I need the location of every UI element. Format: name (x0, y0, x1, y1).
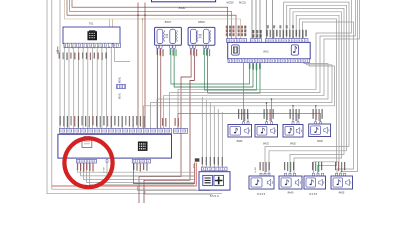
tweeter 8402 pin row (315, 122, 317, 125)
wire ECU drop B to head unit (144, 3, 146, 129)
wire margin drop to head unit pin 1 (59, 0, 61, 129)
wire head unit group A to 8503 area (5 lines) (78, 163, 195, 173)
amplifier 8410 top pin strips (227, 39, 247, 43)
amplifier 8410 labels above top pins (226, 26, 228, 29)
speaker labels above 8435 (312, 162, 313, 170)
speaker 8506 box (188, 27, 215, 45)
head unit box 8400 (58, 134, 172, 158)
tweeter labels above 8420 (290, 109, 291, 119)
wire amp bottom pin g5 to head unit (151, 62, 333, 128)
wire dark rail y113.5 with drops to tweeters (178, 114, 321, 129)
wire stubs into T01 top (110, 19, 113, 27)
8506 magnet dashes (199, 35, 202, 38)
T01 pin number row (65, 46, 66, 48)
T01 connector icon (88, 32, 97, 41)
head unit pin 10 (106, 160, 108, 163)
svg-text:MC41: MC41 (120, 76, 122, 83)
svg-text:MC51: MC51 (239, 0, 246, 4)
speaker 8440 box (279, 176, 302, 189)
8503 cross icon (214, 175, 224, 185)
wire junction drop to tweeter 8402 (315, 106, 317, 122)
wire amp bottom pin g6 to head unit (144, 62, 335, 128)
wire drop to tweeter 8420 pin (292, 106, 294, 122)
wire top edge jog g3 to head unit (164, 0, 360, 129)
8410 green wire labels (249, 63, 251, 69)
8503 lines icon (203, 175, 213, 185)
8503 pin strip (202, 167, 227, 171)
svg-text:M A: M A (193, 164, 196, 168)
svg-text:8425: 8425 (257, 192, 266, 196)
svg-text:8440: 8440 (288, 190, 294, 194)
wire top edge jog g1 to head unit (178, 0, 352, 129)
tweeter 8480 pin row (243, 122, 245, 125)
speaker 8435 box (304, 176, 326, 189)
wire top edge jog g2 to head unit (170, 0, 356, 129)
8410 bottom pin strip (228, 59, 310, 63)
wire amp green drop to tweeter 8480 (243, 62, 245, 121)
wire gray under 8503 line 1 (138, 187, 211, 191)
wire tan drop to head unit pin from loop d (142, 19, 144, 129)
svg-text:8420: 8420 (290, 142, 296, 146)
head unit top wire labels (60, 116, 61, 125)
ECU box top partial (152, 0, 216, 2)
8507 magnet dashes (165, 35, 168, 38)
mini connector near head unit right (195, 158, 200, 161)
wire 8507 maroon pair to head unit (158, 48, 161, 128)
head unit group A labels (77, 164, 78, 171)
wire top edge drops to amp pins (252, 0, 273, 39)
8507 right driver (170, 29, 176, 43)
wire head unit group B maroon U to riser (134, 163, 195, 184)
svg-text:MC50: MC50 (227, 0, 234, 4)
speaker 8480 box (228, 125, 252, 138)
tweeter labels above 8480 (238, 109, 239, 119)
wire nest amp pin to right bundle 3 (290, 8, 344, 173)
svg-text:8503: 8503 (210, 194, 219, 198)
speaker 8440 pin row (285, 173, 287, 176)
head unit DIP icon (138, 142, 147, 151)
wire nest amp pin to right bundle 5 (296, 15, 339, 173)
8503 pin labels (202, 157, 203, 164)
speaker 8402 box (309, 124, 331, 137)
8506 pin row (190, 45, 192, 48)
speaker 8455 box (331, 176, 353, 189)
8410 music note icon (291, 45, 298, 55)
wire tan loop to amplifier pin MC51b (65, 0, 241, 39)
connector T01 box (63, 27, 120, 44)
8507 left driver (157, 29, 163, 43)
head unit connector icon (82, 139, 92, 148)
speaker 8435 pin row (313, 173, 315, 176)
speaker labels above 8455 (335, 162, 336, 170)
wire maroon loop to amplifier pin MC51a (67, 0, 236, 39)
svg-text:2x NR: 2x NR (255, 167, 257, 173)
svg-text:8402: 8402 (317, 139, 323, 143)
T01 pin row strip (64, 43, 112, 47)
head unit group B labels (133, 164, 134, 171)
ground symbol near T01 (56, 47, 59, 54)
wire red long line to riser (52, 163, 196, 187)
speaker labels above 8425 (260, 162, 261, 170)
speaker 8507 box (155, 27, 182, 45)
wire bus T01 to head unit (11 lines) (64, 47, 111, 129)
speaker 8420 box (283, 125, 303, 138)
head unit extra pin strip (174, 128, 188, 133)
wire ECU drop A to head unit (137, 3, 139, 129)
speaker 8425 box (249, 176, 274, 189)
red highlight circle annotation (64, 138, 112, 187)
wire nest amp pin to right bundle 1 (265, 2, 349, 173)
speaker 8433 box (255, 125, 278, 138)
svg-text:8410: 8410 (263, 50, 269, 53)
speaker labels above 8440 (284, 162, 285, 170)
head unit top pin row strip (60, 128, 172, 133)
speaker 8425 pin row (260, 173, 262, 176)
svg-text:8506: 8506 (198, 20, 205, 24)
head unit bottom pin group B strip (132, 159, 150, 163)
head unit bottom pin group A strip (76, 159, 96, 163)
wire tan loop to amplifier pin MC50a (72, 0, 228, 39)
8506 coils (197, 31, 198, 42)
wire amp bottom pin g4 to head unit (157, 62, 328, 128)
wire nest amp pin to right bundle 6 (299, 19, 336, 173)
wire head unit pin 10 gray (107, 163, 194, 177)
svg-text:10 NR: 10 NR (104, 166, 106, 173)
amplifier 8410 box (228, 42, 311, 58)
wire maroon loop to amplifier pin MC50b (70, 0, 232, 39)
8506 right driver (203, 29, 209, 43)
svg-text:MC41: MC41 (120, 92, 122, 99)
T01 pin labels (59, 53, 60, 59)
wire gray under 8503 line 2 (145, 191, 213, 194)
wire 8506 maroon pair to bottom rail (139, 48, 191, 203)
8410 left connector icon (232, 45, 240, 55)
splice MC41 bar (117, 85, 126, 89)
8507 coils (163, 31, 164, 42)
svg-text:8455: 8455 (339, 190, 345, 194)
svg-text:8507: 8507 (165, 20, 172, 24)
tweeter labels above 8433 (264, 109, 265, 119)
svg-text:8433: 8433 (263, 142, 269, 146)
svg-text:8500: 8500 (179, 6, 186, 10)
wire 8507 green pair to amplifier (171, 48, 250, 84)
svg-text:8480: 8480 (237, 139, 243, 143)
wire top edge drop to rear speaker 8455 pin2 (341, 0, 358, 173)
wire arc to front speaker 8425 pin1 (302, 22, 353, 173)
8506 wire labels (190, 49, 191, 55)
wire nest amp pin to right bundle 2 (269, 5, 347, 173)
wire T01 right pin stub (115, 47, 131, 62)
wire drops to tweeter 8433 pins (267, 99, 272, 122)
svg-text:8435: 8435 (309, 192, 318, 196)
wire bus 8503 risers (6 lines) (202, 97, 222, 167)
8507 wire labels (157, 49, 158, 55)
tweeter 8433 pin row (266, 122, 268, 125)
wire left margin vertical inner (52, 0, 197, 189)
tweeter 8420 pin row (292, 122, 294, 125)
8507 pin row (156, 45, 158, 48)
svg-text:T01: T01 (89, 21, 94, 25)
wire 8506 green pair to amplifier (204, 48, 256, 90)
wire left margin vertical outer (47, 0, 222, 194)
speaker 8455 pin row (336, 173, 338, 176)
relay box 8503 (199, 172, 230, 190)
8506 left driver (191, 29, 197, 43)
wire nest amp pin to right bundle 4 (293, 12, 342, 173)
tweeter labels above 8402 (313, 109, 314, 119)
